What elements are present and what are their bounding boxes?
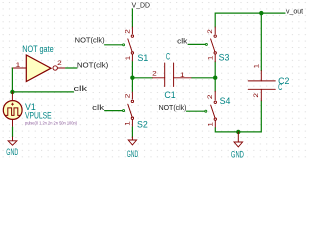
- ground under S2: [128, 137, 136, 145]
- svg-text:1: 1: [125, 55, 132, 60]
- svg-text:1: 1: [125, 121, 132, 126]
- svg-text:S4: S4: [220, 96, 231, 106]
- wire clk to S3: [188, 43, 205, 45]
- svg-text:1: 1: [253, 63, 260, 68]
- wire v_out junction down to C2: [260, 13, 262, 71]
- svg-text:NOT(clk): NOT(clk): [75, 37, 105, 44]
- svg-text:clk: clk: [92, 105, 105, 112]
- wire NOT(clk) to S4: [187, 110, 205, 112]
- junction at v_out drop: [259, 11, 263, 15]
- svg-text:v_out: v_out: [286, 9, 303, 16]
- svg-text:1: 1: [208, 55, 215, 60]
- svg-text:2: 2: [125, 93, 132, 98]
- svg-text:C1: C1: [164, 90, 175, 100]
- junction clk / V1: [10, 90, 14, 94]
- dangling end at S3 control: [205, 43, 207, 45]
- wire V1 to GND: [12, 127, 14, 137]
- capacitor C2: [248, 71, 275, 101]
- wire S1 to mid junction: [131, 62, 133, 78]
- wire junction to C1: [132, 77, 152, 79]
- dangling end at S4 control: [205, 110, 207, 112]
- capacitor C1: [152, 63, 192, 87]
- wire S2 to GND: [131, 127, 133, 137]
- switch S4: [211, 91, 217, 128]
- dangling end at S2 control: [123, 110, 125, 112]
- wire junction up to S3: [214, 62, 216, 78]
- svg-text:C: C: [278, 82, 283, 92]
- svg-text:C: C: [166, 52, 171, 62]
- svg-text:S3: S3: [219, 53, 230, 63]
- svg-text:2: 2: [57, 60, 62, 67]
- svg-text:1: 1: [208, 122, 215, 127]
- svg-text:2: 2: [207, 94, 214, 99]
- junction C1/S3/S4: [213, 76, 217, 80]
- ground bottom right: [234, 132, 243, 147]
- wire NOT(clk) to S1: [105, 44, 123, 46]
- wire NOT gate input down to clk rail: [11, 68, 13, 92]
- switch S1: [128, 27, 134, 62]
- dangling end at S1 control: [123, 44, 125, 46]
- svg-text:1: 1: [180, 72, 185, 79]
- svg-text:VPULSE: VPULSE: [25, 110, 52, 120]
- switch S2: [128, 91, 134, 127]
- junction S1/S2/C1: [130, 76, 134, 80]
- wire clk rail: [12, 91, 73, 93]
- voltage source V1: [3, 92, 22, 127]
- NOT gate U1: [12, 55, 66, 82]
- svg-text:GND: GND: [6, 147, 18, 157]
- svg-text:V_DD: V_DD: [132, 3, 150, 10]
- svg-text:pulse(0 1 2n 2n 2n 50n 100n): pulse(0 1 2n 2n 2n 50n 100n): [25, 121, 77, 127]
- wire NOT gate output: [66, 67, 77, 69]
- svg-text:S2: S2: [137, 120, 148, 130]
- svg-text:1: 1: [16, 62, 21, 69]
- junction bottom GND: [236, 130, 240, 134]
- svg-text:GND: GND: [231, 149, 244, 159]
- svg-text:S1: S1: [138, 53, 149, 63]
- switch S3: [211, 27, 217, 62]
- svg-text:NOT gate: NOT gate: [22, 44, 54, 54]
- svg-text:GND: GND: [127, 149, 139, 159]
- svg-text:2: 2: [152, 71, 157, 78]
- svg-text:2: 2: [124, 29, 131, 34]
- svg-text:clk: clk: [74, 86, 88, 93]
- svg-text:clk: clk: [177, 39, 188, 46]
- svg-text:NOT(clk): NOT(clk): [77, 62, 108, 69]
- svg-text:NOT(clk): NOT(clk): [159, 105, 187, 112]
- wire clk to S2: [105, 110, 123, 112]
- node top rail to v_out: [215, 13, 285, 27]
- wire junction down to S4: [214, 78, 216, 92]
- wire S4 to bottom rail and to C2: [215, 101, 261, 132]
- wire C1 to right junction: [192, 77, 215, 79]
- wire junction down to S2: [131, 78, 133, 92]
- wire V_DD drop to S1: [131, 9, 133, 27]
- ground under V1: [8, 137, 17, 145]
- svg-text:2: 2: [207, 29, 214, 34]
- svg-text:2: 2: [253, 93, 260, 98]
